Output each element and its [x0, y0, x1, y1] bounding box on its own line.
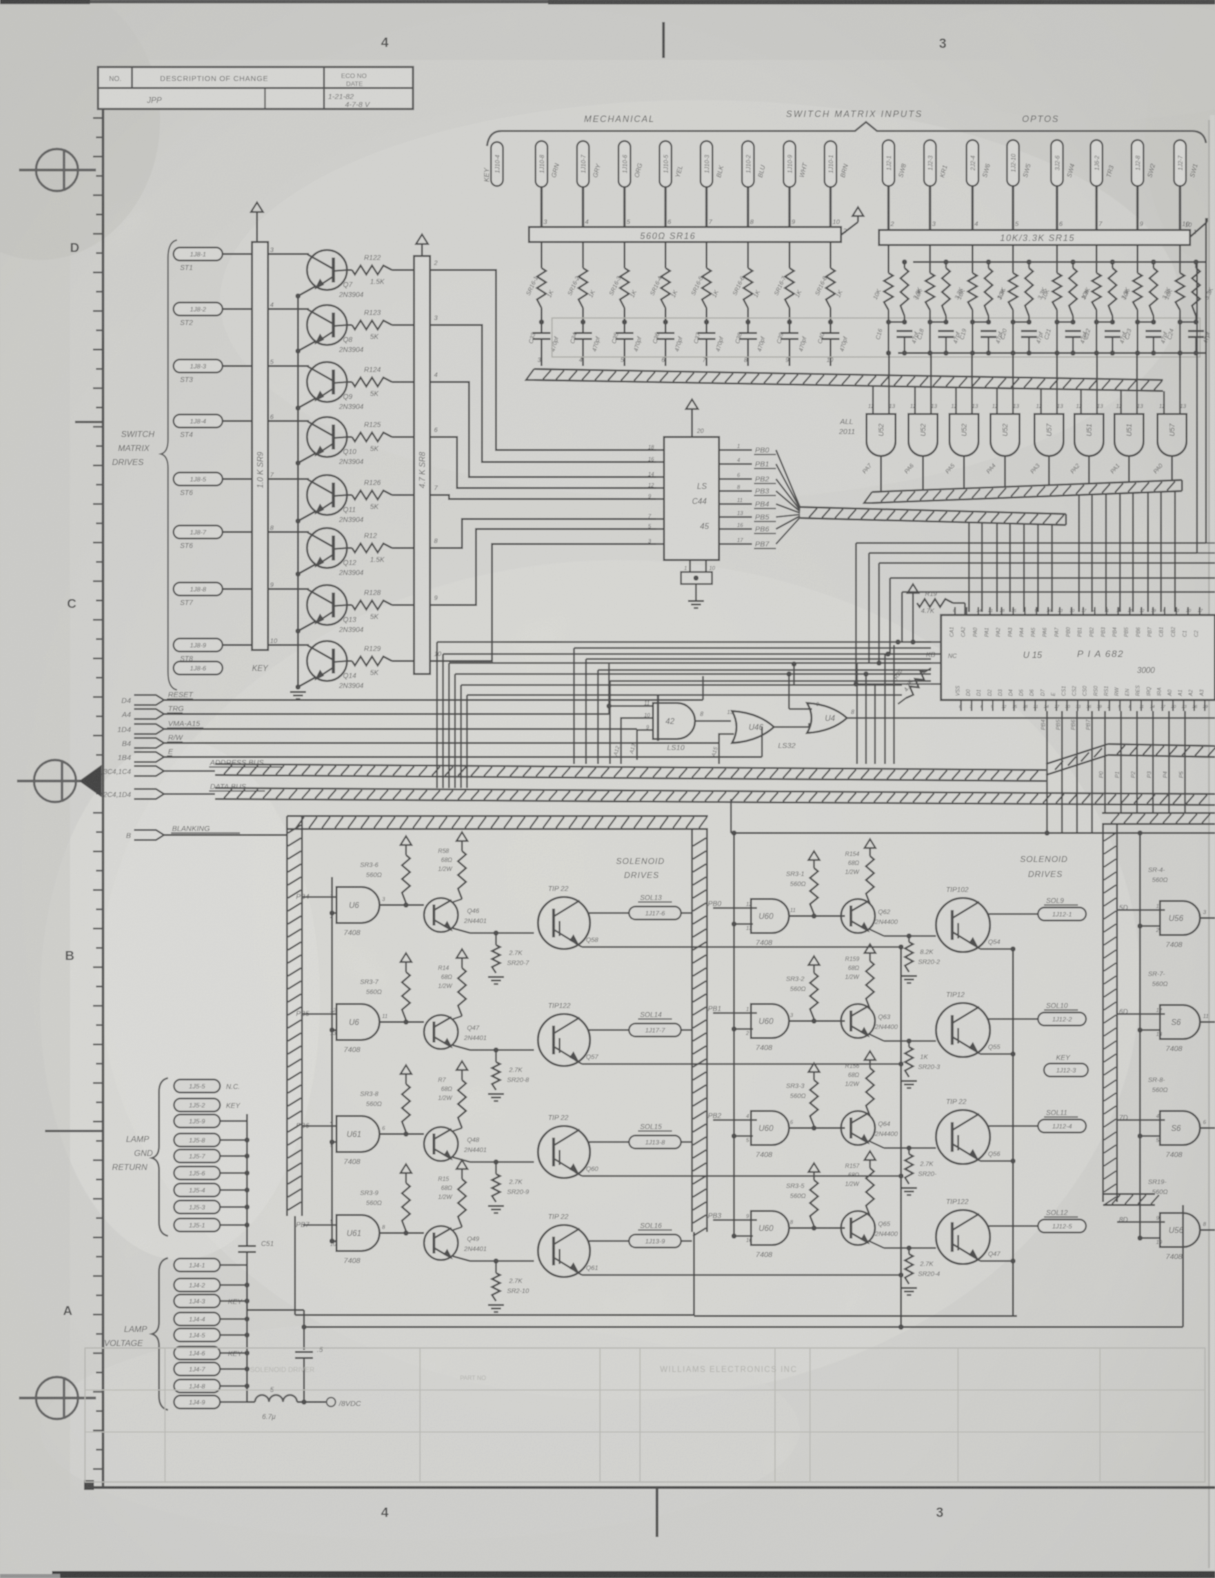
- label SWITCH MATRIX INPUTS: [786, 109, 923, 119]
- AND gate U56 7408 box3: [1137, 901, 1207, 949]
- node PB4 box1: [296, 894, 337, 913]
- box1 collector bus vertical: [898, 947, 903, 1330]
- SR15 common pin wire: [1190, 218, 1207, 237]
- transistor Q13 2N3904: [307, 585, 364, 634]
- wire SR8 row 1 to C44 pin: [430, 270, 656, 450]
- zone tick bottom: [656, 1488, 659, 1537]
- C44 left pin 12: [648, 483, 664, 489]
- AND gate U57 column 8: [1158, 404, 1188, 456]
- wire Q57 collector to output: [588, 1029, 629, 1031]
- label SWITCH MATRIX DRIVES: [112, 429, 155, 467]
- capacitor C22 47pf: [1084, 310, 1129, 356]
- C44 output PB0: [719, 444, 776, 455]
- connector pill 1J2-10: [1007, 140, 1033, 186]
- resistor R154 68ohm 1/2W box2: [845, 839, 876, 904]
- wire emitter Q9 to bus: [295, 398, 316, 411]
- wire PA2 down to box3: [1131, 711, 1137, 813]
- connector pill 1J5-2: [174, 1099, 241, 1112]
- border line bottom: [84, 1480, 1215, 1490]
- resistor 3.3K column 5: [1069, 259, 1092, 316]
- SR8 pin 10: [434, 651, 442, 658]
- top brace over inputs: [487, 122, 1206, 146]
- data bus wires from PIA: [437, 642, 931, 788]
- emitter bus wire left transistors: [297, 296, 299, 688]
- lamp voltage bus vertical: [246, 1265, 248, 1402]
- AND gate S6 7408 box3: [1137, 1005, 1208, 1053]
- connector pill 2J2-4: [967, 140, 993, 186]
- wire 1J2-8 to SR15: [1138, 186, 1144, 230]
- OR gate U46 LS32: [732, 711, 796, 750]
- power transistor TIP 22 Q58 box1: [538, 886, 599, 949]
- capacitor C36 470pf: [653, 308, 685, 366]
- wire PB6 to PIA: [1051, 525, 1053, 612]
- ground left transistor emitter bus: [290, 692, 306, 699]
- PB bus hatched from C44: [800, 507, 1066, 525]
- transistor Q46 2N4401 box1: [424, 898, 534, 933]
- resistor 10K column 2: [914, 245, 934, 310]
- PA bus hatched: [864, 480, 1182, 503]
- U42 input wires: [606, 664, 653, 764]
- wire gate U60 output box2: [789, 1125, 845, 1130]
- connector pill 1J4-9: [174, 1396, 220, 1409]
- resistor SR3-5 560ohm box2: [786, 1163, 820, 1226]
- wire PB0 to PB bus: [776, 450, 800, 507]
- resistor 3.3K column 3: [985, 259, 1008, 316]
- zone divider D-C: [75, 421, 103, 423]
- AND gate U60 7408 box2: [731, 899, 795, 947]
- resistor 3.3K column 6: [1109, 259, 1132, 316]
- wire 3J2-6 to SR15: [1057, 186, 1063, 230]
- input stub A4 TRG: [121, 704, 184, 719]
- resistor SR16-6 1K: [732, 242, 762, 308]
- IC U41 PIA 6821 box: [926, 615, 1215, 700]
- wire 1J5-7 to gnd return bus: [220, 1153, 250, 1158]
- pill KEY 1J12-3: [1044, 1055, 1088, 1077]
- resistor R14 68ohm 1/2W box1: [438, 949, 468, 1016]
- output pill SOL13 1J17-6: [629, 895, 681, 920]
- wire emitter Q8 to bus: [295, 341, 316, 354]
- C44 output PB6: [719, 523, 776, 534]
- gate U52 output to PA bus: [945, 456, 964, 488]
- box3 bottom hatched corner: [1103, 1194, 1159, 1205]
- wire 1J4-5 to lamp voltage bus: [220, 1332, 250, 1337]
- zone number 4 top: [381, 35, 389, 50]
- connector pill 1J10-6: [619, 141, 645, 187]
- resistor SR3-2 560ohm box2: [786, 956, 820, 1019]
- wire SR8 row 7 to C44 pin: [430, 529, 656, 605]
- connector pill 3J2-6: [1051, 140, 1077, 186]
- resistor R124 5K: [347, 367, 414, 398]
- transistor Q10 2N3904: [307, 417, 364, 466]
- wire Q60 collector to output: [588, 1141, 629, 1143]
- resistor 10K column 1: [873, 245, 893, 310]
- connector pill 1J4-1: [174, 1259, 220, 1272]
- power transistor TIP 22 Q61 box1: [538, 1214, 599, 1277]
- gate U57 output to PA bus: [1153, 456, 1172, 480]
- node PB3 box2: [708, 1213, 757, 1220]
- wire PA4 down to box3: [1163, 711, 1169, 813]
- wire R/W: [164, 742, 719, 744]
- U42 output wire: [695, 710, 734, 721]
- wire VMA-A15: [164, 728, 637, 730]
- connector pill 1J6-2: [1091, 140, 1116, 186]
- connector pill 1J5-9: [174, 1115, 220, 1128]
- AND gate U56 7408 box3: [1137, 1213, 1207, 1261]
- wire PB5 down to solenoid drives: [1056, 711, 1062, 833]
- connector pill 1J8-9 ST8: [174, 639, 223, 664]
- SR8 pin 6: [434, 427, 438, 434]
- AND gate U51 column 6: [1075, 404, 1105, 456]
- transistor Q14 2N3904: [307, 641, 364, 690]
- transistor Q8 2N3904: [307, 305, 364, 354]
- wire gate S6 output box3: [1200, 1127, 1215, 1129]
- U46 output wire: [774, 723, 809, 727]
- connector pill 1J10-3: [701, 141, 726, 187]
- resistor 2.7K SR20-7 box1: [488, 930, 529, 984]
- wire PB4 to PIA: [1023, 524, 1025, 612]
- wire 1J4-3 to lamp voltage bus: [220, 1298, 250, 1303]
- connector pill 1J10-2: [742, 141, 767, 187]
- connector pill 1J5-4: [174, 1184, 220, 1197]
- transistor Q47 2N4401 box1: [424, 1015, 534, 1050]
- faint box around capacitor row: [552, 318, 1200, 357]
- label LAMP GND RETURN: [112, 1134, 153, 1172]
- resistor SR3-9 560ohm box1: [360, 1164, 412, 1231]
- wire BLANKING to solenoid box: [164, 834, 287, 836]
- C44 left pin 9: [648, 494, 664, 500]
- box2 bottom line: [694, 1315, 1017, 1317]
- wire gate U61 output: [379, 1230, 424, 1235]
- resistor 3.3K column 4: [1025, 259, 1048, 316]
- wire SR8 row 6 to C44 pin: [430, 519, 656, 548]
- wire Q58 collector to output: [588, 912, 629, 914]
- connector pill 1J4-6: [174, 1347, 243, 1360]
- input stub 1B4 E: [118, 747, 174, 762]
- output pill SOL16 1J13-9: [629, 1223, 681, 1248]
- resistor SR3-8 560ohm box1: [360, 1065, 412, 1132]
- wire PB7 down to solenoid drives: [1086, 711, 1092, 833]
- zone letter C: [67, 596, 77, 611]
- output pill SOL15 1J13-8: [629, 1124, 681, 1149]
- wire OPTOS column 5 to gate: [1056, 353, 1058, 380]
- AND gate U52 column 1: [867, 404, 897, 456]
- C44 bottom pins and ground: [681, 560, 716, 608]
- resistor 2.7K SR20-9 box1: [488, 1159, 529, 1213]
- wire SR9 to base Q11: [268, 478, 309, 480]
- wire PA7 to PIA: [1078, 495, 1080, 612]
- connector pill 1J8-3 ST3: [174, 360, 223, 385]
- resistor 3.3K column 8: [1192, 259, 1215, 316]
- wire PB6 to PB bus: [776, 516, 800, 529]
- power transistor TIP122 Q57 box1: [538, 1003, 599, 1066]
- wire 1J2-7 to SR15: [1180, 186, 1190, 230]
- wire SOL14 to box1 border: [681, 1029, 692, 1031]
- gate U52 output to PA bus: [904, 456, 923, 490]
- wire SOL13 to box1 border: [681, 912, 692, 914]
- connector pill 1J8-1 ST1: [174, 248, 223, 273]
- wire OPTOS column 3 to gate: [971, 353, 973, 380]
- node 5D box3: [1117, 905, 1165, 912]
- SR8 pin 7: [434, 485, 438, 492]
- wire 1J5-9 to gnd return bus: [220, 1120, 247, 1122]
- C44 output PB3: [719, 485, 776, 496]
- resistor SR3-7 560ohm box1: [360, 953, 412, 1020]
- capacitor C51: [238, 1114, 274, 1310]
- wire TRG: [164, 713, 609, 715]
- power transistor TIP 22 Q60 box1: [538, 1115, 599, 1178]
- connector pill 1J10-8: [536, 141, 562, 187]
- wire 1J10-8 to SR16: [542, 187, 548, 227]
- capacitor C19 47pf: [960, 310, 1005, 356]
- rail riser to box3: [1182, 1205, 1184, 1327]
- wire PA1 down to box3: [1115, 711, 1121, 813]
- wire PA4 to PIA: [1119, 493, 1121, 612]
- capacitor C16 47pf: [876, 310, 921, 356]
- gate U52 input wires: [873, 353, 889, 414]
- node 7D box3: [1117, 1115, 1165, 1122]
- IC C44 box: [664, 437, 719, 560]
- resistor SR16-4 1K: [650, 242, 680, 308]
- connector pill 1J4-7: [174, 1363, 220, 1376]
- connector pill 1J2-7: [1174, 140, 1200, 186]
- zone number 3 top: [939, 36, 947, 51]
- node PB5 box1: [296, 1011, 337, 1030]
- resistor R126 5K: [347, 480, 414, 511]
- capacitor C35 470pf: [612, 308, 644, 366]
- resistor 2.7K SR20-4 box2: [901, 1245, 940, 1295]
- wire PA0 to PIA: [1174, 491, 1176, 612]
- wire PB4 to PB bus: [776, 504, 800, 513]
- wire PA2 to PIA: [1147, 492, 1149, 612]
- gate U52 input wires: [956, 353, 972, 414]
- label ADDRESS BUS: [103, 758, 282, 776]
- left border line: [102, 109, 105, 1487]
- connector pill 1J4-8: [174, 1380, 220, 1393]
- C44 output PB5: [719, 511, 776, 522]
- box1 right hatched border: [692, 829, 707, 1316]
- resistor SR3-1 560ohm box2: [786, 851, 820, 914]
- switch matrix input bus hatched: [526, 369, 1163, 391]
- wire 1J4-7 to lamp voltage bus: [220, 1366, 250, 1371]
- node PB7 box1: [296, 1222, 337, 1241]
- node PB2 box2: [708, 1113, 757, 1120]
- SR8 pin 9: [434, 595, 438, 602]
- zone number 3 bottom: [936, 1505, 944, 1520]
- resistor R123 5K: [347, 310, 414, 341]
- connector pill 1J4-4: [174, 1313, 220, 1326]
- wire OPTOS column 7 to gate: [1136, 353, 1138, 380]
- horizontal control wires to PIA: [853, 543, 1215, 687]
- connector pill 1J10-7: [577, 141, 603, 187]
- data bus hatched bar: [164, 788, 1215, 805]
- resistor 2.7K SR2-10 box1: [488, 1258, 529, 1312]
- resistor R159 68ohm 1/2W box2: [845, 944, 876, 1009]
- resistor network SR15 box: [879, 223, 1197, 245]
- C44 left pin 18: [648, 445, 664, 451]
- wire emitter Q13 to bus: [295, 621, 316, 634]
- registration mark 2: [17, 760, 101, 802]
- wire 1J10-9 to SR16: [790, 187, 796, 227]
- wire PB3 to PIA: [1009, 524, 1011, 613]
- resistor SR16-3 1K: [609, 242, 639, 308]
- connector pill 1J5-3: [174, 1201, 220, 1214]
- resistor 3.3K column 1: [901, 259, 924, 316]
- connector pill 1J4-3: [174, 1295, 243, 1308]
- U46 lower input: [711, 734, 734, 764]
- wire gate U6 output: [379, 902, 424, 907]
- connector pill 1J5-8: [174, 1134, 220, 1147]
- wire gate U60 output box2: [789, 913, 845, 918]
- wire PB2 to PB bus: [776, 479, 800, 510]
- resistor SR16-2 1K: [567, 242, 597, 308]
- capacitor C52 .5: [295, 1347, 323, 1405]
- connector pill 1J5-5: [174, 1080, 240, 1093]
- gate U51 output to PA bus: [1110, 456, 1129, 482]
- wire PB5 to PB bus: [776, 515, 800, 518]
- wire PB0 to PIA: [968, 522, 970, 612]
- wire Q61 collector to output: [588, 1240, 629, 1242]
- brace switch matrix drives: [161, 240, 177, 690]
- wire Q56 emitter to bus box2: [974, 1156, 1016, 1164]
- address wires down to address bus: [786, 645, 894, 764]
- wire 1J4-2 to lamp voltage bus: [220, 1282, 250, 1287]
- wire 1J6-2 to SR15: [1097, 186, 1103, 230]
- capacitor C24 47pf: [1167, 310, 1212, 356]
- registration mark 1: [19, 149, 96, 191]
- resistor label SR-4 560 box3: [1148, 867, 1168, 884]
- wire 1J8-8 to SR9: [223, 582, 275, 589]
- AND gate U52 column 2: [909, 404, 939, 456]
- transistor Q7 2N3904: [307, 250, 364, 299]
- transistor Q64 2N4400 box2: [841, 1111, 936, 1148]
- capacitor C34 470pf: [570, 308, 602, 366]
- OR gate U44 LS32: [807, 703, 847, 733]
- resistor 10K column 3: [957, 245, 977, 310]
- wire SR8 row 3 to C44 pin: [430, 382, 656, 477]
- top page edge line: [0, 1, 1215, 2]
- wire E: [164, 756, 762, 758]
- connector pill 1J8-8 ST7: [174, 583, 223, 608]
- wire SR9 to base Q14: [268, 644, 309, 646]
- transistor Q62 2N4400 box2: [841, 899, 936, 936]
- box2 collector bus vertical: [1012, 949, 1014, 1316]
- gate U52 output to PA bus: [862, 456, 881, 492]
- wire 1J4-9 to lamp voltage bus: [220, 1401, 247, 1403]
- resistor R58 68ohm 1/2W box1: [438, 832, 468, 899]
- wire SR8 row 8 to C44 pin: [430, 544, 656, 661]
- resistor 2.7K SR20- box2: [901, 1145, 937, 1195]
- wire emitter Q14 to bus: [295, 677, 316, 690]
- node 8D box3: [1117, 1217, 1165, 1224]
- V+ arrow above SR9: [251, 202, 263, 242]
- wire 1J10-6 to SR16: [625, 187, 631, 227]
- transistor Q12 2N3904: [307, 528, 364, 577]
- resistor SR16-5 1K: [691, 242, 721, 308]
- bottom black strip: [0, 1571, 1215, 1578]
- AND gate U57 column 5: [1035, 404, 1065, 456]
- resistor 3.3K column 7: [1150, 259, 1173, 316]
- capacitor C21 47pf: [1044, 310, 1089, 356]
- wire PA5 to PIA: [1105, 494, 1107, 612]
- wire E row to U44: [762, 727, 809, 757]
- gate U52 input wires: [915, 353, 931, 414]
- wire SOL9 to output pill: [988, 913, 1039, 915]
- wire SR8 row 2 to C44 pin: [430, 325, 656, 462]
- wire 1J4-6 to lamp voltage bus: [220, 1350, 250, 1355]
- resistor 10K column 8: [1164, 245, 1184, 310]
- wire gate U56 output box3: [1200, 1229, 1215, 1231]
- wire rail right column down: [1197, 262, 1206, 553]
- top rail above box2: [731, 799, 1215, 836]
- wire gate U6 output: [379, 1019, 424, 1024]
- wire OPTOS column 4 to gate: [1012, 353, 1014, 380]
- wire Q60 emitter to collector bus: [575, 1172, 904, 1179]
- wire PA0 down to box3: [1099, 711, 1105, 813]
- wire SR9 to base Q9: [268, 365, 309, 367]
- output pill SOL9 1J12-1: [1038, 898, 1086, 921]
- box1 bottom line: [295, 1216, 694, 1315]
- connector pill 1J8-6 KEY: [174, 662, 269, 675]
- box1 gate input bus vertical: [331, 877, 333, 1241]
- wire PB6 down to solenoid drives: [1071, 711, 1077, 833]
- wire 1J5-3 to gnd return bus: [220, 1204, 250, 1209]
- wire Q54 emitter to bus box2: [974, 944, 1016, 952]
- output pill SOL12 1J12-5: [1038, 1210, 1086, 1233]
- title block: [98, 67, 413, 109]
- gate U51 input wires: [1081, 353, 1097, 414]
- U44 upper input: [789, 702, 819, 709]
- wire RESET: [164, 699, 703, 701]
- wire OPTOS column 8 to gate: [1179, 353, 1181, 380]
- address bus hatched bar: [164, 764, 1046, 781]
- output pill SOL11 1J12-4: [1038, 1110, 1086, 1133]
- wire 1J8-9 to SR9: [223, 638, 278, 645]
- gate U57 output to PA bus: [1030, 456, 1049, 485]
- wire PA5 down to box3: [1179, 711, 1185, 813]
- wire PB7 to PB bus: [776, 518, 800, 545]
- C44 output PB2: [719, 473, 776, 484]
- connector pill 1J4-2: [174, 1279, 220, 1292]
- wire PA1 to PIA: [1160, 492, 1162, 612]
- resistor network SR9 bar: [252, 242, 268, 650]
- C44 left pin 5: [648, 524, 664, 530]
- wire SR9 to base Q13: [268, 588, 309, 590]
- wire PA6 to PIA: [1091, 495, 1093, 613]
- zone number 4 bottom: [381, 1505, 389, 1520]
- wire Q61 emitter to collector bus: [575, 1271, 904, 1278]
- wire SR8 row 4 to C44 pin: [430, 437, 656, 488]
- connector pill 1J8-5 ST6: [174, 473, 223, 498]
- zone letter A: [63, 1303, 73, 1318]
- wire emitter Q10 to bus: [295, 453, 316, 466]
- address bus jog to right: [1046, 744, 1215, 775]
- wire 1J4-4 to lamp voltage bus: [220, 1316, 250, 1321]
- PIA left pins: [931, 642, 941, 684]
- resistor SR16-7 1K: [774, 242, 804, 308]
- wire PA3 to PIA: [1132, 493, 1134, 612]
- power transistor TIP12 Q55 box2: [936, 992, 1001, 1057]
- wire PB2 to PIA: [996, 523, 998, 612]
- wire 1J8-5 to SR9: [223, 472, 275, 479]
- transistor Q63 2N4400 box2: [841, 1004, 936, 1041]
- U44 output wire: [847, 710, 1215, 718]
- AND gate U60 7408 box2: [731, 1211, 794, 1259]
- V+ arrow above C44: [685, 399, 704, 448]
- output pill SOL14 1J17-7: [629, 1012, 681, 1037]
- resistor R7 68ohm 1/2W box1: [438, 1061, 468, 1128]
- wire SR9 to base Q10: [268, 420, 309, 422]
- resistor 3.3K column 2: [942, 259, 965, 316]
